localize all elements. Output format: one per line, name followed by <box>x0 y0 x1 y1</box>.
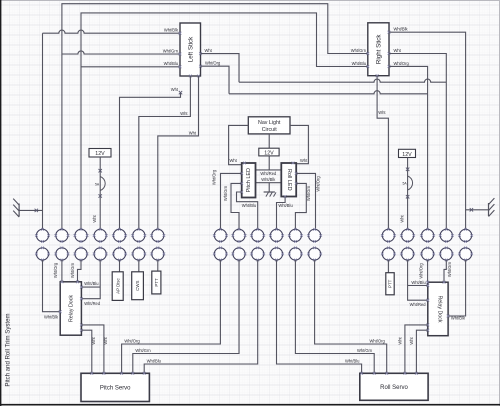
wire Wht/Blu roll LED to pin column 11 <box>277 197 286 230</box>
svg-text:Wht/Red: Wht/Red <box>260 171 277 176</box>
PTT left box <box>152 271 161 294</box>
connector pin row1 col10 <box>250 228 265 243</box>
svg-text:Wht/Blk: Wht/Blk <box>451 316 466 321</box>
wire Wht/Org pin column 2 down to relay dock top <box>61 260 63 282</box>
nav light circuit box <box>248 117 290 134</box>
svg-text:Wht: Wht <box>378 110 386 115</box>
svg-text:Wht/Blu: Wht/Blu <box>147 358 161 363</box>
svg-text:12V: 12V <box>264 150 274 156</box>
svg-text:5A: 5A <box>95 183 100 187</box>
svg-text:Wht: Wht <box>205 48 213 53</box>
svg-text:Wht/Grn: Wht/Grn <box>223 185 228 201</box>
wire Wht/Grn pin column 9 to pitch servo <box>133 260 239 373</box>
wire Wht/Blk pin column 18 down to relay dock right <box>448 260 466 316</box>
svg-text:Wht/Org: Wht/Org <box>370 338 386 343</box>
connector pin row1 col18 <box>458 228 473 243</box>
connector pin row1 col17 <box>439 228 454 243</box>
pitch LED box <box>242 163 256 198</box>
12V center box <box>259 148 279 156</box>
wire segment vertical Wht/Blk column x=42.5 <box>42 33 44 229</box>
svg-text:Pitch Servo: Pitch Servo <box>100 385 131 391</box>
splice x on ground wire <box>35 209 38 212</box>
svg-text:5A: 5A <box>402 182 407 186</box>
12V supply left box <box>89 149 111 158</box>
svg-text:Wht/Blk: Wht/Blk <box>394 27 409 32</box>
svg-text:Wht/Blu: Wht/Blu <box>411 280 425 285</box>
svg-text:Wht/Org: Wht/Org <box>211 169 216 185</box>
roll servo box <box>360 373 428 400</box>
connector pin row1 col2 <box>55 228 70 243</box>
svg-text:PTT: PTT <box>154 278 159 287</box>
wire Wht/Org roll LED to pin column 13 <box>296 173 315 229</box>
svg-text:Wht/Blu: Wht/Blu <box>84 281 98 286</box>
svg-text:Wht/Grn: Wht/Grn <box>351 48 367 53</box>
wire Wht from Right Stick bottom pin to pin column 13 <box>377 76 388 230</box>
svg-text:Nav Light: Nav Light <box>258 120 281 126</box>
wire from nav light left to Pitch LED top <box>229 125 249 164</box>
wire Wht/Blu pin column 10 to pitch servo <box>144 260 258 373</box>
wire Wht/Org pin column 13 to roll servo <box>315 260 387 373</box>
connector pin row2 col15 <box>400 247 415 262</box>
short rail Wht from pin column 5 with splice end <box>120 93 181 230</box>
connector pin row2 col2 <box>55 247 70 262</box>
svg-text:Wht/Org: Wht/Org <box>53 262 58 278</box>
wire Wht/Blu and Wht/Red pin column 15 into relay dock right left side <box>408 260 428 300</box>
svg-text:AP Disc: AP Disc <box>115 278 120 294</box>
relay dock left box <box>60 282 81 335</box>
wire Wht/Blu pitch LED to pin column 10 <box>237 192 258 229</box>
connector pin row1 col12 <box>288 228 303 243</box>
airframe ground symbol right <box>488 203 490 216</box>
connector pin row1 col16 <box>420 228 435 243</box>
svg-text:Relay Dock: Relay Dock <box>437 295 443 322</box>
connector pin row2 col18 <box>458 247 473 262</box>
svg-text:Wht: Wht <box>394 48 402 53</box>
wire Wht/Blk pin column 1 down to relay dock <box>43 260 61 312</box>
pitch LED pin marks <box>240 172 243 175</box>
svg-text:Wht/Org: Wht/Org <box>205 61 221 66</box>
connector pin row2 col10 <box>250 247 265 262</box>
AP Disc box <box>112 272 123 301</box>
svg-text:Right Stick: Right Stick <box>376 34 383 64</box>
wire from 12V right to breaker <box>407 158 409 230</box>
wire Wht/Grn pin column 3 down to relay dock top <box>78 260 82 282</box>
connector pin row2 col11 <box>269 247 284 262</box>
page border left <box>0 0 2 406</box>
splice x marker <box>179 91 182 94</box>
breaker terminal x top <box>99 169 102 172</box>
svg-text:Wht/Grn: Wht/Grn <box>70 262 75 278</box>
wire Wht relay dock to pitch servo (outer) <box>81 325 104 373</box>
svg-text:Left Stick: Left Stick <box>187 36 194 62</box>
wire pin column 14 down to PTT right <box>387 260 389 273</box>
connector pin row1 col15 <box>400 228 415 243</box>
wire to signal ground <box>268 183 270 192</box>
svg-text:Wht: Wht <box>398 337 403 345</box>
svg-text:PTT: PTT <box>387 279 392 288</box>
rail Wht/Org (left stick to right stick) y=94 <box>229 91 428 94</box>
wire Wht from Left Stick bottom pin 1 to pin column 6 <box>139 76 191 229</box>
wire Wht/Blu branch into Left Stick <box>81 66 180 68</box>
connector pin row2 col14 <box>381 247 396 262</box>
connector pin row2 col3 <box>74 247 89 262</box>
svg-text:Wht: Wht <box>409 337 414 345</box>
connector pin row1 col11 <box>269 228 284 243</box>
svg-text:Roll Servo: Roll Servo <box>380 385 408 391</box>
connector pin row2 col8 <box>213 247 228 262</box>
pitch servo box <box>81 373 149 401</box>
left stick U1 box <box>180 23 201 76</box>
roll servo pin marks <box>360 372 363 375</box>
svg-text:Wht/Blu: Wht/Blu <box>278 203 292 208</box>
wire pin column 5 down to AP Disc <box>119 260 121 272</box>
wire Wht/Org pitch LED to pin column 8 <box>221 173 242 229</box>
wire from 12V left to breaker <box>99 157 101 229</box>
wire Wht/Org from Right Stick down to pin column 16 <box>389 66 428 229</box>
svg-text:Wht/Blk: Wht/Blk <box>164 28 179 33</box>
right stick U2 box <box>368 23 389 76</box>
svg-text:Wht/Blk: Wht/Blk <box>261 177 276 182</box>
wire Wht/Blk between Pitch LED and Roll LED <box>256 182 282 184</box>
svg-text:Pitch LED: Pitch LED <box>246 168 252 192</box>
wire Wht/Blk from Right Stick to pin column 18 <box>389 32 466 229</box>
connector pin row2 col1 <box>35 247 50 262</box>
page border right <box>499 0 500 406</box>
breaker terminal x bottom <box>99 194 102 197</box>
right stick pin marks <box>366 52 369 55</box>
wire Wht from Left Stick bottom pin 2 to pin column 7 <box>158 76 199 229</box>
svg-text:Wht: Wht <box>103 337 108 345</box>
svg-text:Wht: Wht <box>399 215 404 223</box>
svg-text:Wht/Grn: Wht/Grn <box>306 185 311 201</box>
relay dock left pin marks <box>59 310 62 313</box>
left stick pin marks <box>179 32 182 35</box>
airframe ground symbol left <box>18 204 20 217</box>
wire from airframe ground to Wht/Blk column <box>19 209 42 211</box>
wire Wht relay dock right to roll servo (inner) <box>416 330 427 373</box>
wire Wht/Blu pin column 11 to roll servo <box>277 260 362 373</box>
svg-text:Relay Dock: Relay Dock <box>69 295 75 322</box>
wire Wht/Red between Pitch LED and Roll LED <box>256 169 282 171</box>
svg-text:Wht/Blu: Wht/Blu <box>242 203 256 208</box>
svg-text:Wht/Red: Wht/Red <box>84 301 101 306</box>
circuit breaker CB1 arc <box>100 177 105 191</box>
svg-text:Wht/Red: Wht/Red <box>410 302 427 307</box>
wire Wht/Blu top rail (left stick to right stick) <box>81 13 368 229</box>
wire pin column 6 down to CWS <box>138 260 140 272</box>
roll LED box <box>281 163 296 197</box>
connector pin row1 col7 <box>150 228 165 243</box>
connector pin row1 col14 <box>381 228 396 243</box>
connector pin row1 col5 <box>112 228 127 243</box>
wire pin column 7 down to PTT <box>157 260 159 271</box>
wire center 12V down to Wht/Red rail <box>268 156 270 170</box>
svg-text:Wht: Wht <box>171 87 179 92</box>
wire from nav light right to Roll LED top <box>290 125 308 163</box>
svg-text:12V: 12V <box>95 151 105 157</box>
page border top <box>0 0 500 2</box>
svg-text:Wht: Wht <box>189 130 197 135</box>
connector pin row2 col16 <box>420 247 435 262</box>
svg-text:Wht/Grn: Wht/Grn <box>163 48 179 53</box>
wire Wht/Org from Left Stick down to rail <box>201 66 230 94</box>
svg-text:Wht: Wht <box>300 158 308 163</box>
svg-text:12V: 12V <box>402 152 412 158</box>
connector pin row1 col13 <box>307 228 322 243</box>
pitch servo pin marks <box>90 372 93 375</box>
wire Wht/Grn top rail (left stick to right stick) <box>62 4 368 230</box>
wire Wht relay dock right to roll servo (outer) <box>405 325 428 373</box>
svg-text:Wht/Blu: Wht/Blu <box>164 61 178 66</box>
svg-text:CWS: CWS <box>135 281 140 291</box>
svg-text:Wht/Grn: Wht/Grn <box>135 348 151 353</box>
connector pin row1 col9 <box>232 228 247 243</box>
svg-text:Wht/Org: Wht/Org <box>124 338 140 343</box>
connector pin row2 col5 <box>112 247 127 262</box>
wire Wht/Grn pitch LED to pin column 9 <box>231 183 242 229</box>
connector pin row1 col8 <box>213 228 228 243</box>
roll LED pin marks <box>295 172 298 175</box>
svg-text:Wht/Grn: Wht/Grn <box>447 261 452 277</box>
wire from pin column 18 to airframe ground right <box>466 209 489 211</box>
connector pin row2 col13 <box>307 247 322 262</box>
signal ground symbol <box>264 191 275 193</box>
relay dock right box <box>428 282 448 336</box>
rail Wht (left stick Wht to right stick Wht) y=82 <box>239 79 446 82</box>
wire Wht/Grn pin column 12 to roll servo <box>295 260 374 373</box>
svg-text:Wht: Wht <box>91 337 96 345</box>
connector pin row2 col4 <box>93 247 108 262</box>
wire Wht/Grn pin column 17 down to relay dock top <box>444 260 446 282</box>
wire Wht/Grn roll LED to pin column 12 <box>295 183 306 229</box>
breaker terminal x bottom <box>406 195 409 198</box>
connector pin row2 col12 <box>288 247 303 262</box>
circuit breaker CB2 arc <box>408 176 413 190</box>
connector pin row2 col7 <box>150 247 165 262</box>
wire Wht/Org pin column 8 to pitch servo <box>122 260 221 373</box>
connector pin row1 col4 <box>93 228 108 243</box>
svg-text:Wht/Org: Wht/Org <box>418 263 423 279</box>
wire Wht relay dock to pitch servo (inner) <box>81 330 91 373</box>
relay dock right pin marks <box>447 315 450 318</box>
svg-text:Wht/Org: Wht/Org <box>315 176 320 192</box>
svg-text:Wht: Wht <box>92 215 97 223</box>
splice x on ground wire <box>470 208 473 211</box>
svg-text:Wht/Blu: Wht/Blu <box>352 61 366 66</box>
svg-text:Wht: Wht <box>180 111 188 116</box>
PTT right box <box>386 273 394 295</box>
wire Wht/Blk into Left Stick (from pin column 1) <box>43 30 181 33</box>
connector pin row1 col6 <box>131 228 146 243</box>
breaker terminal x top <box>406 168 409 171</box>
wire Wht from Right Stick down to rail and pin column 17 <box>389 54 446 230</box>
wire Wht/Org pin column 16 down to relay dock top <box>427 260 429 282</box>
svg-text:Circuit: Circuit <box>262 127 278 133</box>
page border bottom <box>0 404 500 406</box>
connector pin row1 col1 <box>35 228 50 243</box>
connector pin row2 col17 <box>439 247 454 262</box>
svg-text:Wht/Org: Wht/Org <box>394 61 410 66</box>
connector pin row2 col6 <box>131 247 146 262</box>
svg-text:Roll LED: Roll LED <box>286 169 292 191</box>
svg-text:Wht/Blu: Wht/Blu <box>345 358 359 363</box>
wire Wht from Left Stick to rail <box>201 54 240 83</box>
CWS box <box>132 272 144 300</box>
12V supply right box <box>399 149 416 157</box>
wire Wht/Grn branch into Left Stick <box>62 51 180 54</box>
svg-text:Wht: Wht <box>230 158 238 163</box>
connector pin row1 col3 <box>74 228 89 243</box>
svg-text:Pitch and Roll Trim System: Pitch and Roll Trim System <box>5 313 12 386</box>
wire Wht/Blu and Wht/Red pin column 4 into relay dock right side <box>81 260 100 299</box>
svg-text:Wht/Grn: Wht/Grn <box>357 348 373 353</box>
svg-text:Wht/Blk: Wht/Blk <box>44 315 59 320</box>
wire nav light bottom to center 12V <box>268 134 270 148</box>
connector pin row2 col9 <box>232 247 247 262</box>
